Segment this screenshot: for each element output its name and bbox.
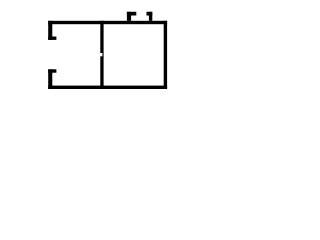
left top hook arm xyxy=(127,12,136,16)
top wall xyxy=(48,21,167,24)
right top hook arm xyxy=(147,12,153,16)
left top hook leg xyxy=(127,12,131,21)
center divider wall lower part xyxy=(100,56,103,89)
center divider wall upper part xyxy=(100,21,103,53)
right top hook leg xyxy=(149,12,152,21)
bottom wall xyxy=(48,86,167,89)
upper lip of left slot xyxy=(48,37,56,40)
right wall xyxy=(164,21,167,89)
left wall upper segment xyxy=(48,21,52,40)
divider slot sliver xyxy=(102,53,103,57)
left wall lower segment xyxy=(48,69,52,89)
lower lip of left slot xyxy=(48,69,56,72)
